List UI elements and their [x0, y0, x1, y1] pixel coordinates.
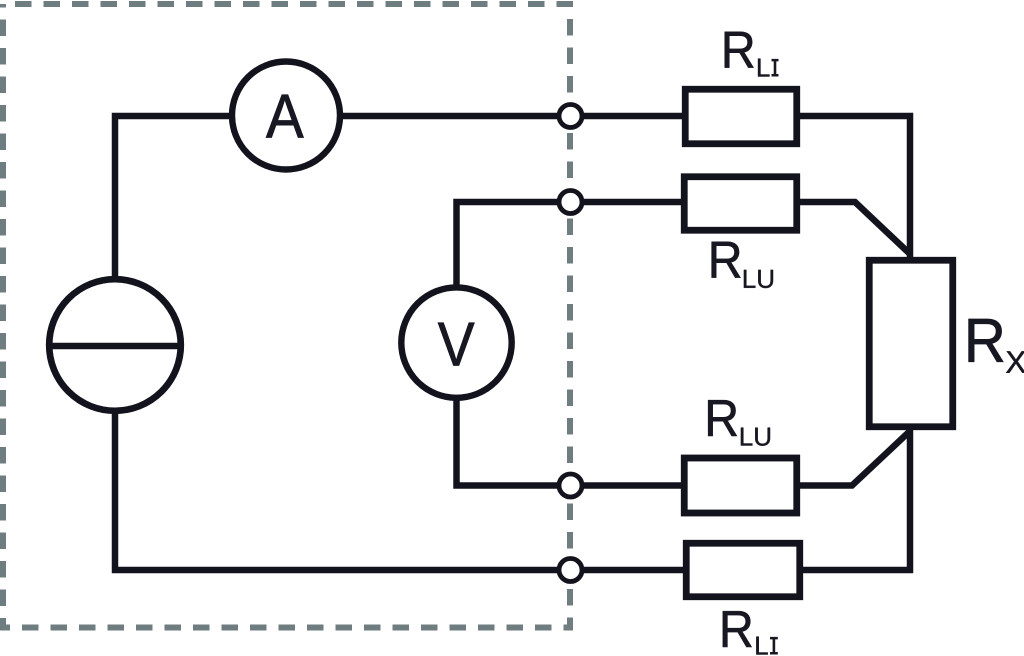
label RLU bottom — [708, 400, 770, 446]
wire ammeter to terminal 1 — [338, 113, 570, 120]
wire source bottom to terminal 4 — [115, 408, 570, 570]
wire RLU bottom to RX bottom (diagonal) — [798, 431, 910, 486]
current source — [49, 279, 181, 411]
resistor RX — [869, 260, 953, 427]
resistor RLI bottom — [686, 543, 800, 597]
voltmeter V — [401, 287, 511, 397]
terminal 1 — [559, 105, 582, 128]
wire voltmeter top to terminal 2 — [457, 202, 571, 292]
label RLI bottom — [723, 611, 778, 654]
wire terminal 4 to resistor RLI bottom — [571, 567, 686, 574]
label RLI top — [725, 32, 779, 77]
wire source top to ammeter — [115, 116, 234, 284]
wire RLI top to RX top — [798, 116, 910, 260]
wire voltmeter bottom to terminal 3 — [457, 394, 571, 486]
wire RLI bottom to RX bottom — [800, 428, 910, 570]
wire RLU top to RX top (diagonal) — [798, 202, 910, 254]
ammeter A — [232, 62, 340, 170]
terminal 4 — [559, 559, 582, 582]
resistor RLU bottom — [684, 458, 797, 513]
terminal 3 — [559, 474, 582, 497]
wire terminal 3 to resistor RLU bottom — [571, 482, 684, 489]
wire terminal 2 to resistor RLU top — [571, 199, 684, 206]
terminal 2 — [559, 191, 582, 214]
resistor RLI top — [685, 89, 797, 144]
resistor RLU top — [684, 177, 797, 231]
instrument enclosure (dashed boundary) — [3, 4, 570, 628]
label RX — [969, 319, 1024, 373]
label RLU top — [712, 242, 773, 288]
wire terminal 1 to resistor RLI top — [571, 113, 684, 120]
